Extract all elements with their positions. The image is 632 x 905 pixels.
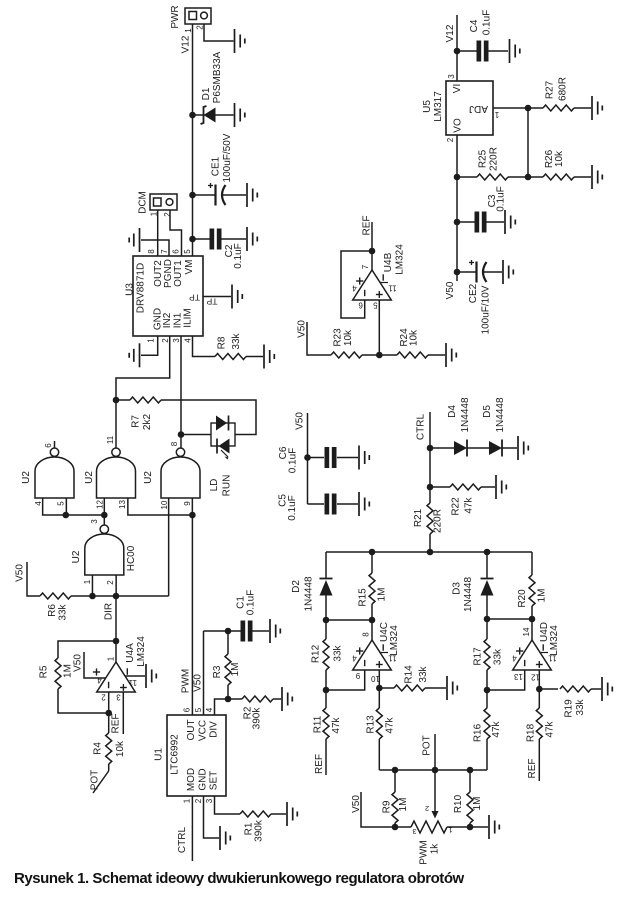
wire wiper arrow bbox=[432, 770, 439, 819]
svg-text:13: 13 bbox=[118, 500, 127, 509]
svg-text:U2: U2 bbox=[143, 471, 154, 484]
svg-text:Rysunek 1. Schemat ideowy dwuk: Rysunek 1. Schemat ideowy dwukierunkoweg… bbox=[14, 870, 465, 887]
svg-text:8: 8 bbox=[362, 632, 371, 637]
svg-text:DCM: DCM bbox=[138, 191, 149, 214]
resistor R14 33k bbox=[379, 665, 446, 691]
node R15/rail bbox=[369, 549, 376, 556]
svg-text:13: 13 bbox=[514, 672, 523, 681]
wire V50 to C6/C5 bbox=[307, 413, 309, 504]
wire POT label to wiper bbox=[434, 734, 436, 770]
svg-text:V12: V12 bbox=[445, 24, 456, 42]
svg-text:1N4448: 1N4448 bbox=[460, 397, 471, 432]
svg-text:0.1uF: 0.1uF bbox=[233, 243, 244, 269]
svg-text:11: 11 bbox=[548, 654, 557, 663]
svg-text:OUT1: OUT1 bbox=[173, 260, 184, 287]
svg-text:U3: U3 bbox=[125, 283, 136, 296]
wire POT rail bbox=[379, 769, 487, 771]
wire U5 VO rail bbox=[456, 135, 458, 281]
ground pot bbox=[489, 815, 499, 839]
wire pot to ground bbox=[470, 826, 488, 828]
svg-text:10k: 10k bbox=[115, 740, 126, 757]
svg-text:TP: TP bbox=[206, 297, 217, 307]
svg-text:D4: D4 bbox=[447, 405, 458, 418]
wire CTRL net bbox=[429, 412, 431, 503]
svg-text:OUT: OUT bbox=[186, 719, 197, 740]
wire U2D input stubs bbox=[91, 575, 93, 596]
svg-text:2: 2 bbox=[161, 338, 170, 343]
svg-text:R3: R3 bbox=[212, 665, 223, 678]
svg-text:0.1uF: 0.1uF bbox=[496, 186, 507, 212]
svg-text:R4: R4 bbox=[93, 742, 104, 755]
ground R22 bbox=[496, 475, 506, 499]
svg-text:2: 2 bbox=[194, 798, 203, 803]
svg-text:47k: 47k bbox=[385, 716, 396, 733]
node VO/C3 bbox=[454, 219, 461, 226]
node R17/R16/pin13 bbox=[484, 687, 491, 694]
svg-text:U2: U2 bbox=[21, 471, 32, 484]
svg-text:R8: R8 bbox=[217, 336, 228, 349]
wire to POT label bbox=[93, 771, 109, 793]
svg-text:D1: D1 bbox=[201, 87, 212, 100]
svg-text:V50: V50 bbox=[295, 412, 306, 430]
wire U4B feedback loop bbox=[341, 251, 372, 318]
node V12/C4 bbox=[454, 48, 461, 55]
svg-text:1: 1 bbox=[183, 798, 192, 803]
svg-text:2: 2 bbox=[446, 137, 455, 142]
wire U2B pin 13 to U2C pin 9 bbox=[128, 498, 193, 515]
svg-text:11: 11 bbox=[388, 654, 397, 663]
svg-text:LM317: LM317 bbox=[433, 91, 444, 122]
svg-text:0.1uF: 0.1uF bbox=[246, 590, 257, 616]
svg-text:POT: POT bbox=[422, 735, 433, 756]
gate U2B (NAND) bbox=[84, 435, 136, 509]
IC U1 LTC6992 bbox=[154, 707, 227, 803]
resistor R1 390k bbox=[240, 811, 286, 842]
resistor R15 1M bbox=[358, 552, 388, 620]
svg-text:U1: U1 bbox=[154, 748, 165, 761]
capacitor CE2 100uF/10V bbox=[457, 260, 502, 334]
svg-text:0.1uF: 0.1uF bbox=[482, 10, 493, 36]
svg-text:ADJ: ADJ bbox=[469, 103, 488, 114]
svg-text:U5: U5 bbox=[422, 100, 433, 113]
svg-text:R25: R25 bbox=[478, 149, 489, 168]
node CTRL/D4 bbox=[427, 445, 434, 452]
svg-text:LM324: LM324 bbox=[549, 625, 560, 656]
node DIR/U2D.1 bbox=[89, 593, 96, 600]
wire U2C pin 10 down to DIR net bbox=[168, 498, 170, 596]
svg-text:680R: 680R bbox=[558, 77, 569, 101]
capacitor C1 0.1uF bbox=[228, 590, 269, 642]
resistor R21 220R bbox=[413, 503, 444, 552]
svg-text:CE1: CE1 bbox=[211, 156, 222, 176]
svg-text:6: 6 bbox=[44, 443, 53, 448]
svg-text:IN2: IN2 bbox=[162, 312, 173, 328]
svg-text:2: 2 bbox=[425, 804, 429, 813]
pin TP of U3 bbox=[203, 297, 231, 307]
svg-text:1k: 1k bbox=[430, 843, 441, 855]
svg-text:R12: R12 bbox=[311, 644, 322, 663]
ground D5 bbox=[518, 436, 528, 460]
wire U4D pin 12 stub bbox=[538, 670, 540, 689]
capacitor C2 0.1uF bbox=[193, 229, 247, 269]
gate U2C (NAND) bbox=[143, 441, 200, 509]
wire U2C pin 9 stub bbox=[191, 498, 193, 515]
wire U2A inputs tied bbox=[43, 498, 105, 515]
ground R8 bbox=[264, 345, 274, 369]
resistor R25 220R bbox=[457, 147, 528, 180]
op-amp U4B LM324 bbox=[352, 244, 406, 310]
capacitor CE1 100uF/50V bbox=[193, 133, 247, 205]
svg-text:PWM: PWM bbox=[419, 840, 430, 864]
svg-text:R11: R11 bbox=[313, 715, 324, 733]
gate U2D (NAND HC00) bbox=[71, 519, 137, 585]
svg-text:VI: VI bbox=[452, 84, 463, 93]
resistor R9 1M bbox=[382, 770, 410, 827]
node CTRL/R22 bbox=[427, 484, 434, 491]
svg-text:3: 3 bbox=[116, 693, 121, 702]
resistor R17 33k bbox=[473, 619, 504, 690]
node R12/R11/pin9 bbox=[323, 687, 330, 694]
svg-text:RUN: RUN bbox=[222, 475, 233, 497]
svg-text:11: 11 bbox=[106, 435, 115, 444]
wire U3 IN2 to gate U2B output bbox=[116, 336, 170, 400]
wire U1 GND to ground bbox=[204, 796, 220, 838]
svg-text:1: 1 bbox=[184, 28, 193, 33]
svg-text:1M: 1M bbox=[230, 663, 241, 677]
svg-text:VM: VM bbox=[184, 260, 195, 275]
svg-text:5: 5 bbox=[373, 301, 378, 310]
svg-text:33k: 33k bbox=[575, 698, 586, 715]
ground C5 bbox=[359, 492, 369, 516]
svg-text:6: 6 bbox=[171, 249, 180, 254]
svg-text:4: 4 bbox=[97, 676, 102, 685]
svg-text:33k: 33k bbox=[58, 603, 69, 620]
svg-text:MOD: MOD bbox=[186, 768, 197, 791]
wire rail to R20 bbox=[531, 552, 533, 575]
svg-text:2: 2 bbox=[106, 580, 115, 585]
svg-text:3: 3 bbox=[412, 827, 416, 836]
svg-text:47k: 47k bbox=[491, 720, 502, 737]
ground U4A bbox=[146, 664, 156, 688]
svg-text:D2: D2 bbox=[291, 580, 302, 593]
svg-text:1M: 1M bbox=[398, 798, 409, 812]
svg-text:10k: 10k bbox=[554, 150, 565, 167]
ground U1 bbox=[220, 826, 230, 850]
wire D3-R20 link bbox=[487, 618, 532, 620]
svg-text:8: 8 bbox=[147, 249, 156, 254]
wire V50 to R6 bbox=[27, 562, 40, 596]
svg-text:11: 11 bbox=[388, 284, 397, 293]
svg-text:2k2: 2k2 bbox=[142, 414, 153, 431]
svg-text:R27: R27 bbox=[545, 80, 556, 99]
svg-text:1N4448: 1N4448 bbox=[304, 576, 315, 611]
wire U4D pin 13 to R17/R16 node bbox=[487, 670, 525, 690]
svg-text:10: 10 bbox=[371, 674, 380, 683]
svg-text:1: 1 bbox=[494, 110, 499, 119]
gate U2A (NAND) bbox=[21, 441, 74, 506]
svg-text:390k: 390k bbox=[252, 707, 263, 730]
svg-text:V50: V50 bbox=[73, 654, 84, 672]
svg-text:LM324: LM324 bbox=[136, 636, 147, 667]
capacitor C5 0.1uF bbox=[278, 494, 359, 521]
svg-text:TP: TP bbox=[189, 293, 200, 303]
wire PWM net (U2C.9 to U1 OUT) bbox=[191, 515, 193, 715]
svg-text:DIV: DIV bbox=[209, 721, 220, 738]
node U2A.5 bbox=[63, 512, 70, 519]
resistor R23 10k bbox=[331, 328, 379, 358]
svg-text:47k: 47k bbox=[464, 496, 475, 513]
svg-text:R18: R18 bbox=[526, 723, 537, 742]
svg-text:R9: R9 bbox=[382, 800, 393, 813]
svg-text:CE2: CE2 bbox=[468, 283, 479, 303]
node R15/U4C out bbox=[369, 617, 376, 624]
node R9/pot bbox=[392, 824, 399, 831]
resistor R8 33k bbox=[215, 332, 263, 359]
zener D1 P6SMB33A bbox=[193, 51, 234, 124]
ground C3 bbox=[505, 210, 515, 234]
wire D2 anode down bbox=[325, 596, 327, 621]
op-amp U4D LM324 bbox=[512, 622, 560, 682]
ground U3 GND bbox=[129, 343, 139, 367]
svg-text:R21: R21 bbox=[413, 508, 424, 527]
svg-text:6: 6 bbox=[358, 301, 363, 310]
node DIR/U2D.2 bbox=[113, 593, 120, 600]
IC U5 LM317 bbox=[422, 74, 499, 143]
node ADJ/R27/R26 bbox=[525, 105, 532, 112]
node U2B.12/U2D.3 bbox=[101, 512, 108, 519]
svg-text:R16: R16 bbox=[473, 723, 484, 742]
diode D4 1N4448 bbox=[430, 397, 471, 456]
wire U4A pin 3 REF bbox=[122, 692, 124, 734]
node IN1/LED bbox=[178, 431, 185, 438]
svg-text:R17: R17 bbox=[473, 647, 484, 666]
svg-text:V50: V50 bbox=[15, 564, 26, 582]
wire V50/C1 branch bbox=[204, 630, 229, 632]
wire U3 PGND to ground bbox=[141, 240, 169, 256]
wire D2-R15 link bbox=[326, 619, 372, 621]
wire U1 MOD to CTRL bbox=[191, 796, 193, 861]
svg-text:1M: 1M bbox=[377, 588, 388, 602]
svg-text:D3: D3 bbox=[452, 582, 463, 595]
svg-text:11: 11 bbox=[128, 678, 137, 687]
node U4B output bbox=[369, 248, 376, 255]
ground R2 bbox=[282, 687, 292, 711]
wire U4A pin 2 stub bbox=[108, 692, 110, 713]
svg-text:V50: V50 bbox=[445, 281, 456, 299]
resistor R11 47k bbox=[313, 690, 343, 775]
node C1/R3 bbox=[225, 628, 232, 635]
ground PGND bbox=[129, 228, 139, 252]
svg-text:D5: D5 bbox=[482, 405, 493, 418]
node IN2/R7 bbox=[113, 397, 120, 404]
diode D2 1N4448 bbox=[291, 576, 333, 611]
svg-text:3: 3 bbox=[205, 798, 214, 803]
svg-text:47k: 47k bbox=[545, 720, 556, 737]
svg-text:10: 10 bbox=[160, 500, 169, 509]
svg-text:ILIM: ILIM bbox=[183, 308, 194, 327]
svg-text:C4: C4 bbox=[469, 19, 480, 32]
svg-text:7: 7 bbox=[160, 249, 169, 254]
wire DCM pin 1 to U3 OUT2 bbox=[157, 210, 159, 256]
node D3/R17 bbox=[484, 616, 491, 623]
ground R19 bbox=[602, 677, 612, 701]
wire rail to D2 bbox=[325, 552, 327, 579]
wire DCM pin 2 to U3 OUT1 bbox=[170, 210, 182, 256]
wire V12 to U5 VI bbox=[456, 15, 458, 81]
node R3/R2/DIV bbox=[225, 696, 232, 703]
svg-text:12: 12 bbox=[96, 500, 105, 509]
resistor R24 10k bbox=[379, 328, 445, 358]
resistor R22 47k bbox=[430, 484, 495, 516]
svg-text:R5: R5 bbox=[39, 665, 50, 678]
wire V50 to pot bbox=[361, 792, 411, 827]
connector PWR bbox=[170, 5, 211, 32]
resistor R5 1M bbox=[39, 658, 74, 689]
svg-text:33k: 33k bbox=[493, 648, 504, 665]
svg-text:R15: R15 bbox=[358, 588, 369, 607]
svg-text:POT: POT bbox=[90, 770, 101, 791]
wire DIR net bbox=[92, 595, 168, 597]
ground D1 bbox=[235, 103, 245, 127]
svg-text:8: 8 bbox=[170, 441, 179, 446]
ground PWR bbox=[235, 29, 245, 53]
resistor R13 47k bbox=[366, 688, 396, 770]
resistor R12 33k bbox=[311, 620, 344, 690]
diode D5 1N4448 bbox=[467, 397, 517, 456]
svg-text:1N4448: 1N4448 bbox=[495, 397, 506, 432]
svg-text:DRV8871D: DRV8871D bbox=[136, 263, 147, 313]
wire U4B output to REF bbox=[371, 222, 373, 251]
potentiometer PWM 1k bbox=[411, 804, 453, 865]
svg-text:4: 4 bbox=[184, 338, 193, 343]
LED LD RUN (bidirectional) bbox=[209, 416, 235, 497]
svg-text:4: 4 bbox=[34, 501, 43, 506]
svg-text:V50: V50 bbox=[297, 320, 308, 338]
svg-text:9: 9 bbox=[355, 671, 360, 680]
svg-text:VO: VO bbox=[453, 118, 464, 133]
wire U4C output stub bbox=[371, 620, 373, 640]
svg-text:33k: 33k bbox=[418, 665, 429, 682]
svg-text:5: 5 bbox=[194, 707, 203, 712]
svg-text:33k: 33k bbox=[333, 644, 344, 661]
svg-text:3: 3 bbox=[172, 338, 181, 343]
resistor R20 1M bbox=[517, 575, 548, 619]
svg-text:GND: GND bbox=[198, 768, 209, 790]
node POT/rail bbox=[432, 767, 439, 774]
resistor R16 47k bbox=[473, 690, 503, 770]
wire U4C pin 10 stub bbox=[378, 670, 380, 688]
wire U3 IN1 down to gate U2C output bbox=[180, 336, 182, 448]
wire U1 SET to R1 bbox=[215, 796, 241, 814]
node C6 bbox=[304, 454, 311, 461]
svg-text:47k: 47k bbox=[331, 716, 342, 733]
resistor R6 33k bbox=[40, 593, 92, 621]
svg-text:5: 5 bbox=[183, 249, 192, 254]
svg-text:4: 4 bbox=[512, 654, 517, 663]
resistor R18 47k bbox=[526, 689, 556, 781]
wire DIR down to U4A output bbox=[115, 596, 117, 641]
resistor R2 390k bbox=[228, 696, 281, 729]
node pin12/R18/R19 bbox=[536, 686, 543, 693]
wire V50 to R23 bbox=[307, 322, 331, 355]
wire U3 GND to ground bbox=[141, 336, 158, 355]
svg-text:390k: 390k bbox=[254, 819, 265, 842]
svg-text:14: 14 bbox=[522, 627, 531, 636]
node V12/CE1 bbox=[189, 192, 196, 199]
ground R24 bbox=[446, 343, 456, 367]
wire R7 to LED right side bbox=[161, 400, 256, 435]
wire D3 anode down bbox=[486, 596, 488, 620]
svg-text:R13: R13 bbox=[366, 715, 377, 734]
svg-text:0.1uF: 0.1uF bbox=[287, 495, 298, 521]
node R25/R26 bbox=[525, 174, 532, 181]
svg-text:R10: R10 bbox=[453, 794, 464, 813]
node R21/rail bbox=[427, 549, 434, 556]
svg-text:U4A: U4A bbox=[125, 643, 136, 663]
svg-text:DIR: DIR bbox=[104, 603, 115, 620]
svg-text:2: 2 bbox=[101, 693, 106, 702]
svg-text:R23: R23 bbox=[333, 328, 344, 347]
svg-text:2: 2 bbox=[196, 25, 205, 30]
svg-text:3: 3 bbox=[447, 74, 456, 79]
wire PWR pin 2 to ground bbox=[204, 24, 234, 41]
node R9/rail bbox=[392, 767, 399, 774]
svg-text:0.1uF: 0.1uF bbox=[288, 448, 299, 474]
ground R27 bbox=[592, 96, 602, 120]
wire U2B output pin 11 up to R7 node bbox=[115, 400, 117, 448]
svg-text:V50: V50 bbox=[193, 674, 204, 692]
svg-text:1M: 1M bbox=[472, 797, 483, 811]
node pin10/R13/R14 bbox=[376, 685, 383, 692]
svg-text:HC00: HC00 bbox=[126, 545, 137, 571]
node R10/ground bbox=[467, 824, 474, 831]
wire U4B pin 5 stub bbox=[378, 300, 380, 355]
svg-text:SET: SET bbox=[209, 771, 220, 790]
node R10/rail bbox=[467, 767, 474, 774]
connector DCM bbox=[138, 191, 178, 217]
svg-text:1M: 1M bbox=[537, 589, 548, 603]
svg-text:LTC6992: LTC6992 bbox=[170, 734, 181, 775]
svg-text:1: 1 bbox=[147, 338, 156, 343]
wire U4D output stub bbox=[531, 619, 533, 640]
wire ADJ node down bbox=[527, 108, 529, 177]
node R20/U4D out bbox=[529, 616, 536, 623]
ground CE2 bbox=[503, 260, 513, 284]
op-amp U4C LM324 bbox=[352, 622, 400, 683]
wire V50 to U4A V+ bbox=[84, 652, 106, 678]
svg-text:100uF/50V: 100uF/50V bbox=[222, 133, 233, 182]
svg-text:220R: 220R bbox=[433, 509, 444, 533]
svg-text:4: 4 bbox=[352, 654, 357, 663]
svg-text:PWR: PWR bbox=[170, 5, 181, 28]
wire node to LED left side bbox=[181, 434, 211, 436]
node PWM/pin9 bbox=[189, 512, 196, 519]
ground C4 bbox=[510, 39, 520, 63]
node REF/R4 bbox=[105, 710, 112, 717]
svg-text:4: 4 bbox=[205, 707, 214, 712]
svg-text:REF: REF bbox=[527, 759, 538, 779]
ground TP bbox=[232, 285, 242, 309]
op-amp U4A LM324 bbox=[93, 636, 147, 702]
capacitor C4 0.1uF bbox=[457, 10, 508, 62]
svg-text:100uF/10V: 100uF/10V bbox=[481, 285, 492, 334]
svg-text:CTRL: CTRL bbox=[416, 414, 427, 441]
svg-text:7: 7 bbox=[361, 264, 370, 269]
wire to U1 DIV bbox=[215, 699, 229, 715]
resistor R4 10k bbox=[93, 713, 127, 771]
wire U4C pin 9 to R12/R11 node bbox=[326, 670, 365, 690]
ground C1 bbox=[270, 619, 280, 643]
